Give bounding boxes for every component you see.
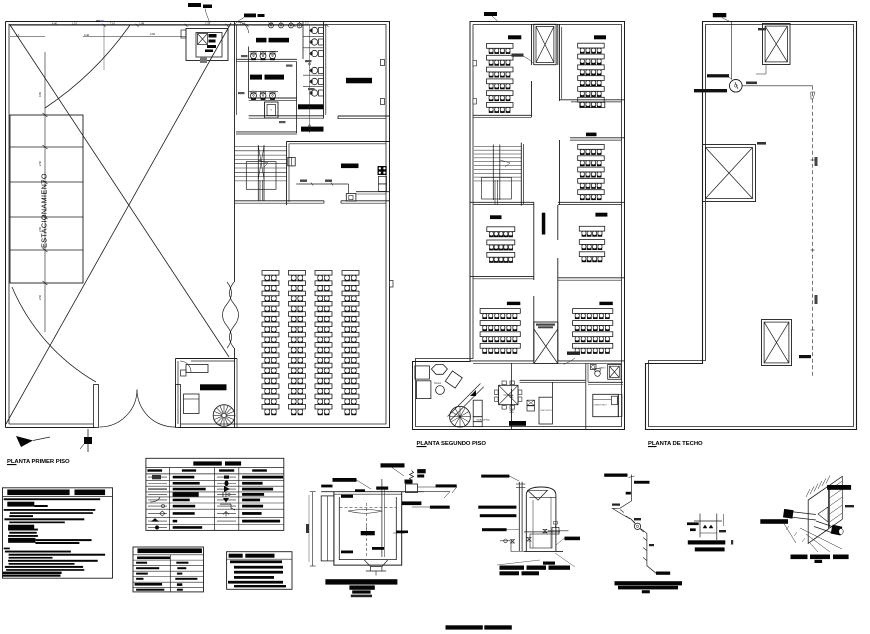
svg-text:4.60: 4.60 (150, 32, 156, 36)
svg-text:4.40: 4.40 (84, 33, 90, 37)
svg-text:LAVANDERIA: LAVANDERIA (476, 419, 490, 422)
svg-text:ESTACIONAMIENTO: ESTACIONAMIENTO (40, 173, 49, 248)
svg-text:PLANTA DE TECHO: PLANTA DE TECHO (648, 441, 703, 447)
svg-text:1.10: 1.10 (72, 22, 78, 26)
svg-text:2.50: 2.50 (38, 294, 42, 300)
svg-text:2.50: 2.50 (38, 160, 42, 166)
svg-text:1.1: 1.1 (16, 33, 20, 37)
svg-text:7.10: 7.10 (110, 22, 116, 26)
svg-text:4.40: 4.40 (52, 22, 58, 26)
svg-text:PLANTA SEGUNDO PISO: PLANTA SEGUNDO PISO (417, 441, 487, 447)
svg-text:DEPOSITO: DEPOSITO (541, 410, 553, 412)
svg-text:BAÑO: BAÑO (600, 366, 606, 369)
svg-text:DORMITORIO: DORMITORIO (593, 405, 607, 407)
svg-text:PLANTA PRIMER PISO: PLANTA PRIMER PISO (7, 459, 70, 465)
svg-text:2.48: 2.48 (139, 22, 145, 26)
svg-text:SALA: SALA (434, 381, 441, 385)
svg-text:4.50: 4.50 (38, 91, 42, 97)
svg-text:2.2: 2.2 (305, 22, 309, 26)
